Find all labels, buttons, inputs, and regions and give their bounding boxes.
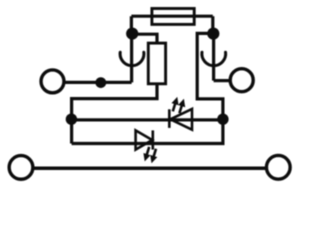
wire fuse through-line: [131, 15, 212, 18]
right contact arc: [202, 52, 226, 65]
terminal right circle: [230, 69, 253, 92]
LED D3 cathode bar: [168, 109, 171, 128]
LED D4 emission arrows: [146, 147, 156, 158]
fuse F1: [152, 9, 194, 25]
wire left terminal horizontal: [64, 81, 132, 84]
wire LED row C: [72, 119, 223, 144]
wire right clip branch to node D2: [197, 33, 223, 120]
LED D3 emission arrows: [173, 102, 183, 113]
LED D3 triangle: [170, 109, 192, 130]
wire resistor bottom to node D1 and lower row: [72, 84, 157, 144]
node right fuse clip: [207, 27, 219, 39]
node D1: [66, 114, 77, 125]
terminal bottom-left circle: [9, 156, 33, 180]
terminal bottom-right circle: [266, 155, 290, 179]
node left terminal tap: [95, 77, 106, 88]
LED D4 triangle: [136, 130, 153, 149]
wire LED row B: [72, 118, 223, 121]
wire left clip to resistor top: [132, 34, 157, 43]
left contact arc: [120, 52, 144, 65]
wire right fuse drop: [211, 16, 214, 33]
node D2: [217, 114, 228, 125]
LED D4 cathode bar: [152, 130, 155, 149]
resistor R1: [148, 43, 165, 84]
node left fuse clip: [126, 27, 138, 39]
wire left fuse drop: [130, 16, 133, 33]
wire bottom feed-through rail: [34, 167, 265, 171]
terminal left circle: [41, 70, 64, 93]
wire left contact vertical: [130, 34, 133, 83]
wire right contact vertical: [212, 34, 215, 81]
wire right terminal horizontal: [214, 79, 230, 82]
